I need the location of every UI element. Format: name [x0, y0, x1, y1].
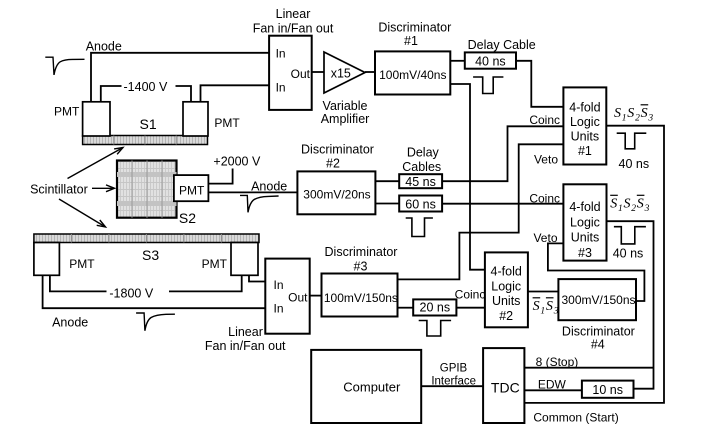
svg-text:40 ns: 40 ns: [619, 157, 650, 171]
svg-text:S3: S3: [142, 247, 159, 263]
svg-text:+2000 V: +2000 V: [213, 155, 261, 169]
svg-text:Units: Units: [571, 231, 599, 245]
svg-text:Fan in/Fan out: Fan in/Fan out: [253, 22, 334, 36]
svg-text:PMT: PMT: [54, 105, 80, 119]
svg-text:1: 1: [622, 114, 627, 124]
svg-text:#1: #1: [578, 144, 592, 158]
svg-text:Computer: Computer: [343, 380, 401, 395]
svg-text:3: 3: [647, 114, 653, 124]
svg-text:PMT: PMT: [214, 116, 240, 130]
svg-text:Scintillator: Scintillator: [30, 183, 88, 197]
svg-text:Amplifier: Amplifier: [321, 112, 370, 126]
svg-text:#4: #4: [591, 337, 605, 351]
svg-text:#2: #2: [326, 157, 340, 171]
svg-text:Coinc: Coinc: [529, 113, 560, 127]
svg-text:TDC: TDC: [491, 380, 520, 396]
svg-text:EDW: EDW: [538, 378, 567, 392]
svg-text:S: S: [641, 106, 648, 121]
svg-text:#1: #1: [404, 34, 418, 48]
svg-text:100mV/150ns: 100mV/150ns: [324, 291, 398, 305]
svg-text:40 ns: 40 ns: [475, 55, 506, 69]
svg-text:S: S: [614, 106, 621, 121]
svg-text:#2: #2: [499, 309, 513, 323]
svg-text:Discriminator: Discriminator: [325, 245, 398, 259]
svg-text:x15: x15: [331, 67, 351, 81]
svg-text:Anode: Anode: [52, 316, 88, 330]
svg-text:Units: Units: [571, 130, 599, 144]
svg-text:Units: Units: [492, 294, 520, 308]
svg-text:Discriminator: Discriminator: [378, 21, 451, 35]
svg-text:PMT: PMT: [179, 184, 205, 198]
svg-text:Veto: Veto: [533, 231, 557, 245]
svg-text:100mV/40ns: 100mV/40ns: [379, 68, 446, 82]
svg-text:2: 2: [631, 204, 636, 214]
svg-text:Coinc: Coinc: [455, 287, 486, 301]
svg-text:In: In: [274, 278, 284, 292]
svg-text:Logic: Logic: [570, 115, 600, 129]
svg-text:3: 3: [644, 204, 650, 214]
svg-text:S2: S2: [179, 210, 196, 226]
svg-text:4-fold: 4-fold: [569, 200, 600, 214]
svg-text:Coinc: Coinc: [529, 192, 560, 206]
svg-text:10 ns: 10 ns: [592, 383, 623, 397]
svg-text:Out: Out: [288, 291, 308, 305]
svg-text:Delay: Delay: [407, 146, 440, 160]
svg-text:Veto: Veto: [534, 153, 558, 167]
svg-text:Linear: Linear: [276, 7, 311, 21]
svg-text:In: In: [274, 302, 284, 316]
svg-text:S: S: [624, 197, 631, 212]
svg-text:4-fold: 4-fold: [569, 101, 600, 115]
svg-text:40 ns: 40 ns: [613, 247, 644, 261]
svg-text:Logic: Logic: [570, 216, 600, 230]
svg-text:1: 1: [540, 307, 545, 317]
svg-text:Interface: Interface: [431, 376, 476, 388]
svg-text:1: 1: [618, 204, 623, 214]
svg-text:60 ns: 60 ns: [405, 198, 436, 212]
svg-text:-1800 V: -1800 V: [109, 287, 153, 301]
svg-text:3: 3: [553, 307, 559, 317]
svg-text:Out: Out: [291, 67, 311, 81]
svg-text:Anode: Anode: [251, 180, 287, 194]
svg-text:S: S: [610, 197, 617, 212]
svg-text:Variable: Variable: [323, 99, 368, 113]
svg-text:S: S: [546, 299, 553, 314]
svg-text:S1: S1: [140, 116, 157, 132]
svg-text:300mV/150ns: 300mV/150ns: [561, 293, 635, 307]
svg-text:In: In: [276, 81, 286, 95]
svg-text:S: S: [637, 197, 644, 212]
svg-text:#3: #3: [578, 246, 592, 260]
svg-text:PMT: PMT: [202, 257, 228, 271]
svg-text:8 (Stop): 8 (Stop): [536, 355, 579, 369]
svg-text:4-fold: 4-fold: [491, 265, 522, 279]
svg-text:300mV/20ns: 300mV/20ns: [303, 187, 370, 201]
svg-text:PMT: PMT: [69, 257, 95, 271]
svg-text:Common (Start): Common (Start): [533, 411, 618, 425]
svg-text:20 ns: 20 ns: [420, 301, 451, 315]
svg-text:Cables: Cables: [402, 160, 441, 174]
svg-text:GPIB: GPIB: [440, 363, 468, 375]
svg-text:#3: #3: [354, 260, 368, 274]
svg-text:S: S: [533, 299, 540, 314]
svg-text:-1400 V: -1400 V: [124, 80, 168, 94]
svg-text:Linear: Linear: [228, 325, 263, 339]
svg-text:Logic: Logic: [491, 280, 521, 294]
svg-text:2: 2: [635, 114, 640, 124]
svg-text:Discriminator: Discriminator: [301, 143, 374, 157]
svg-text:Anode: Anode: [86, 40, 122, 54]
svg-text:45 ns: 45 ns: [405, 175, 436, 189]
svg-text:S: S: [627, 106, 634, 121]
svg-text:Delay Cable: Delay Cable: [468, 38, 536, 52]
svg-text:Fan in/Fan out: Fan in/Fan out: [205, 339, 286, 353]
svg-text:In: In: [276, 47, 286, 61]
svg-text:Discriminator: Discriminator: [562, 325, 635, 339]
